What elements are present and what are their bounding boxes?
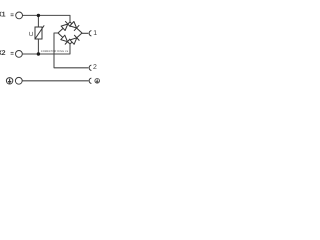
terminal X1 (circle) xyxy=(16,12,23,19)
socket contact PE xyxy=(89,78,91,83)
svg-text:2: 2 xyxy=(93,64,97,71)
wire X1 to bridge top corner xyxy=(23,15,70,22)
diode D1 (left to top side) xyxy=(61,21,70,30)
bridge frame (diamond) xyxy=(58,22,82,44)
svg-text:X2: X2 xyxy=(0,50,6,57)
bridge rectifier V1 xyxy=(58,21,82,44)
junction on X1 line xyxy=(37,14,40,17)
diode D4 (bottom to right side) xyxy=(70,35,79,44)
svg-text:KOMEKTOR RING LS: KOMEKTOR RING LS xyxy=(41,50,69,53)
svg-text:1: 1 xyxy=(93,30,97,37)
PE terminal (open circle) xyxy=(15,77,22,84)
varistor U (box with diagonal) xyxy=(35,25,44,39)
socket contact pin 1 xyxy=(89,31,91,36)
AC symbol at X2 xyxy=(11,52,14,54)
wire varistor U to junction on X2 line xyxy=(37,39,39,54)
wire junction X1 to varistor U xyxy=(37,15,39,27)
wire PE feed-through xyxy=(22,80,88,82)
AC symbol at X1 xyxy=(11,14,14,16)
junction on X2 line xyxy=(37,52,40,55)
diode D3 (left to bottom side) xyxy=(61,35,70,44)
socket contact pin 2 xyxy=(89,65,91,70)
wire X2 to bridge bottom corner xyxy=(23,44,71,54)
svg-text:U: U xyxy=(29,31,33,38)
svg-text:X1: X1 xyxy=(0,12,6,19)
PE symbol at right pin xyxy=(95,79,100,84)
diode D2 (top to right side) xyxy=(70,22,79,31)
wire bridge left corner to terminal 2 xyxy=(54,33,88,68)
terminal X2 (circle) xyxy=(16,51,23,58)
wire bridge right corner to terminal 1 xyxy=(82,32,88,34)
PE earth terminal symbol (circle with earth glyph) xyxy=(6,78,12,84)
